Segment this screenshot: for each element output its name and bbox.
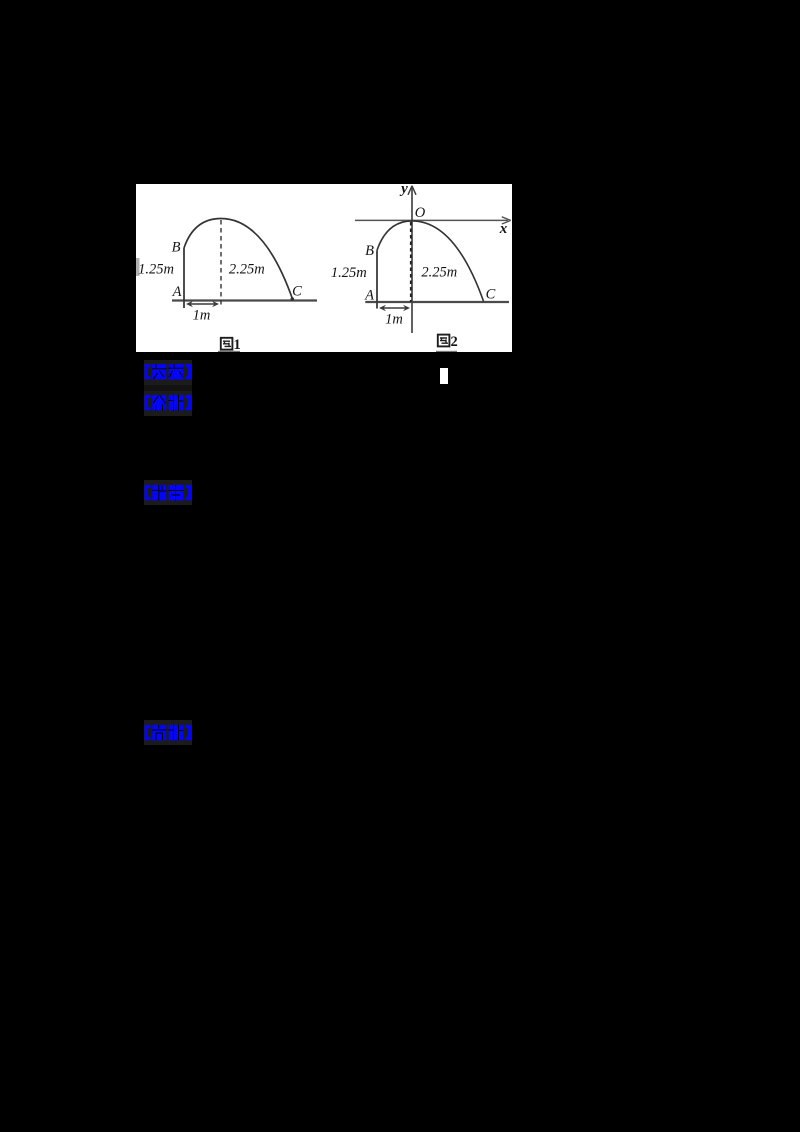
svg-text:1: 1 — [234, 337, 241, 352]
svg-text:1.25m: 1.25m — [331, 265, 367, 281]
svg-text:A: A — [172, 284, 182, 300]
svg-text:y: y — [399, 184, 408, 197]
svg-text:B: B — [172, 240, 181, 256]
svg-text:A: A — [364, 288, 374, 304]
svg-text:1m: 1m — [385, 312, 403, 328]
svg-text:O: O — [415, 205, 426, 221]
svg-text:2.25m: 2.25m — [229, 262, 265, 278]
svg-text:C: C — [292, 284, 302, 300]
svg-text:C: C — [486, 287, 496, 303]
svg-text:2.25m: 2.25m — [421, 265, 457, 281]
svg-text:1m: 1m — [193, 308, 211, 324]
svg-text:2: 2 — [451, 334, 458, 350]
svg-text:1.25m: 1.25m — [138, 262, 174, 278]
svg-text:x: x — [499, 221, 508, 237]
svg-text:B: B — [365, 243, 374, 259]
